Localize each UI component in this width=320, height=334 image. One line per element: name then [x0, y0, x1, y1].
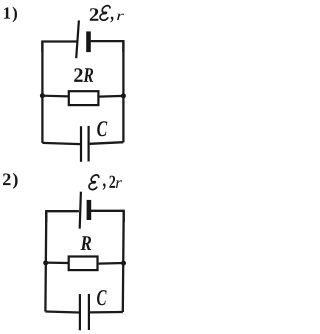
wire: circuit 2 top-right segment: [91, 211, 124, 222]
capacitor C2 value label C: [97, 290, 107, 305]
wire: circuit 1 middle-right segment: [100, 95, 124, 98]
wire: circuit 1 top-left segment: [42, 42, 78, 53]
battery G1 value label: comma: [110, 17, 113, 23]
node: circuit 2 left junction: [43, 260, 48, 265]
node: circuit 2 right junction: [121, 261, 126, 266]
capacitor C1 left plate: [80, 126, 82, 162]
resistor R2 value label R: [81, 236, 92, 250]
capacitor C2 right plate: [88, 294, 90, 330]
capacitor C2 left plate: [79, 294, 81, 330]
wire: circuit 1 top-right segment: [91, 41, 124, 52]
label: circuit number 1): [4, 7, 17, 22]
node: circuit 1 left junction: [40, 93, 45, 98]
capacitor C1 value label C: [97, 121, 107, 136]
wire: circuit 2 right rail: [122, 211, 125, 312]
wire: circuit 1 right rail: [122, 41, 124, 142]
battery G1 short thick plate: [86, 31, 91, 52]
resistor R1 value label: R: [83, 68, 93, 82]
wire: circuit 2 middle-left segment: [46, 262, 68, 265]
battery G2 value label: comma: [103, 183, 106, 190]
battery G1 value label: script letter E (EMF): [100, 6, 110, 21]
wire: circuit 2 bottom-right segment: [90, 311, 123, 314]
resistor R1 body: [69, 91, 99, 105]
wire: circuit 1 middle-left segment: [42, 95, 68, 98]
resistor R2 body: [69, 257, 98, 271]
battery G1 long thin plate: [76, 20, 79, 58]
battery G2 value label: script letter E (EMF): [89, 175, 99, 190]
wire: circuit 1 bottom-left segment: [42, 143, 80, 144]
node: circuit 1 right junction: [121, 93, 126, 98]
battery G1 value label: internal resistance r: [117, 14, 124, 20]
wire: circuit 2 bottom-left segment: [45, 312, 79, 313]
resistor R1 value label: coefficient 2: [74, 68, 82, 82]
battery G1 value label: coefficient 2: [90, 8, 99, 21]
wire: circuit 2 left rail: [44, 211, 47, 311]
wire: circuit 2 middle-right segment: [99, 262, 124, 265]
wire: circuit 1 left rail: [41, 42, 43, 143]
battery G2 short thick plate: [87, 200, 92, 220]
wire: circuit 1 bottom-right segment: [90, 142, 124, 144]
capacitor C1 right plate: [87, 126, 89, 161]
label: circuit number 2): [3, 173, 18, 189]
battery G2 long thin plate: [80, 192, 81, 229]
wire: circuit 2 top-left segment: [46, 211, 79, 222]
battery G2 value label: internal resistance r: [116, 180, 122, 188]
battery G2 value label: coefficient 2: [109, 176, 115, 188]
